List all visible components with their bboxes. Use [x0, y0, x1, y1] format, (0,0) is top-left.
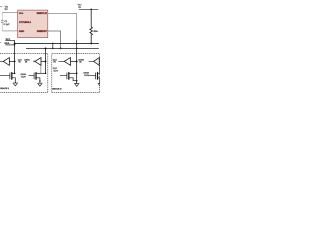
svg-text:SMBCLK: SMBCLK: [37, 12, 47, 15]
wire bufferN1 apex stub: [58, 60, 64, 62]
wire buffer1 base to drop: [9, 60, 14, 62]
svg-text:0.1µF: 0.1µF: [4, 23, 11, 26]
node bufferN1 to drop: [76, 60, 78, 62]
transistor Q3 (deviceN CLK out): [60, 75, 67, 77]
svg-text:RPU: RPU: [94, 30, 99, 33]
svg-text:OUT: OUT: [21, 75, 26, 78]
wire VIN to VCC pin: [2, 11, 17, 13]
ground (device N shared): [74, 82, 79, 84]
node drop rail2 crossing: [76, 48, 78, 50]
wire SCL stub: [5, 39, 14, 41]
wire jog rail1 to rail2: [52, 43, 54, 48]
node drop1 rail1: [14, 43, 16, 45]
wire SDA stub: [5, 44, 14, 46]
wire drop device1 cell2: [45, 48, 47, 73]
resistor RPU: [90, 9, 93, 43]
node buffer2 to drop: [45, 60, 47, 62]
node drain2: [45, 73, 47, 75]
deviceN cell1 input buffer triangle: [64, 58, 70, 66]
wire SMB1 drop lower: [76, 40, 78, 83]
svg-text:GND: GND: [19, 30, 25, 33]
capacitor C1: [1, 12, 3, 31]
wire buffer2 base to drop: [41, 60, 46, 62]
svg-text:5V: 5V: [5, 8, 8, 11]
transistor Q2 (device1 DATA out): [29, 75, 34, 77]
svg-text:3V: 3V: [78, 6, 81, 9]
ground (device1 cell2): [37, 82, 42, 84]
wire bufferN1 base to drop: [71, 60, 77, 62]
ground (device1 cell1): [13, 82, 18, 84]
wire SMB2 pin to rail: [48, 31, 61, 48]
deviceN cell2 input buffer triangle: [94, 58, 100, 66]
wire SMBDAT rail: [26, 47, 99, 49]
node drop1 SDA stub: [14, 44, 15, 45]
device1 cell1 input buffer triangle: [3, 58, 9, 66]
node drop2 rail2: [45, 47, 47, 49]
node drainN1: [76, 73, 78, 75]
node VIN supply tick: [0, 5, 2, 7]
wire drop device1 cell1: [14, 40, 16, 73]
transistor Q1 (device1 CLK out): [0, 75, 10, 77]
wire SMBCLK rail: [15, 42, 99, 44]
node jog bottom: [52, 48, 54, 50]
ground (device N cell2, clipped): [98, 83, 100, 85]
wire bufferN2 apex stub: [89, 60, 94, 62]
svg-text:SMBDAT: SMBDAT: [37, 30, 48, 33]
node SMB2 to rail2: [60, 48, 62, 50]
svg-text:VCC: VCC: [19, 12, 24, 15]
svg-text:DEVICE 1: DEVICE 1: [0, 87, 9, 90]
svg-text:SDA: SDA: [4, 42, 9, 45]
wire VPU rail: [79, 8, 99, 10]
svg-text:DEVICE N: DEVICE N: [52, 87, 62, 90]
node buffer1 to drop: [14, 60, 16, 62]
transistor Q4 (deviceN DATA out): [88, 75, 95, 77]
wire SMB1 pin to vertical drop: [48, 14, 77, 41]
node left edge mark: [0, 41, 1, 43]
node VPU-RPU junction: [90, 9, 92, 11]
svg-text:LTC1694-1: LTC1694-1: [19, 21, 32, 24]
wire GND pin left: [2, 30, 17, 32]
node jog top: [52, 43, 54, 45]
wire buffer1 apex stub: [0, 60, 3, 62]
node drop rail1 crossing: [76, 43, 78, 45]
device1 cell2 input buffer triangle with bubble: [34, 61, 35, 62]
wire buffer2 base bottom to drain: [40, 65, 42, 73]
SMBus device 1 dashed box: [0, 54, 48, 93]
SMBus device N dashed box: [52, 54, 100, 93]
svg-text:OUT: OUT: [54, 69, 59, 72]
node drain1: [14, 73, 16, 75]
node RPU to SMBDAT rail: [90, 43, 92, 45]
op-amp U1 LTC1694-1 box: [18, 10, 48, 37]
